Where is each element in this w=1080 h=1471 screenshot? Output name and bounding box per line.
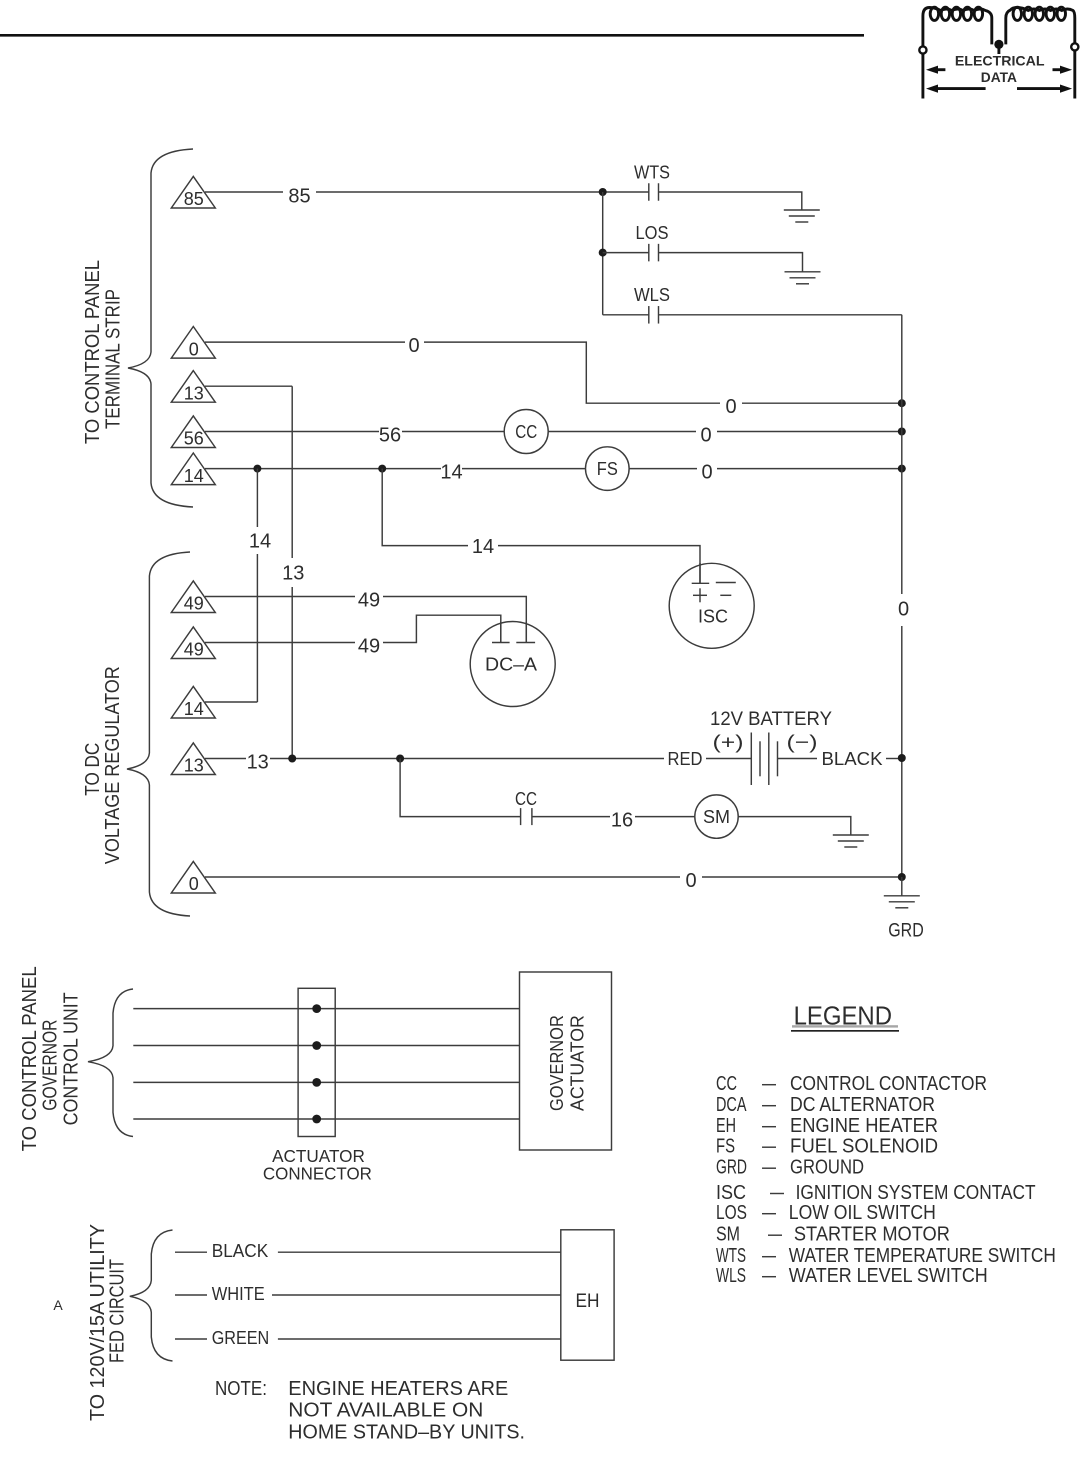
terminal 0 bbox=[171, 327, 215, 360]
svg-text:16: 16 bbox=[611, 810, 633, 832]
wire WLS left bbox=[603, 314, 649, 316]
svg-text:GREEN: GREEN bbox=[212, 1328, 270, 1348]
wire 14 drop to ISC row bbox=[382, 469, 468, 546]
junction: 13 wires meet bbox=[288, 755, 296, 763]
svg-text:BLACK: BLACK bbox=[822, 749, 883, 769]
svg-text:EH: EH bbox=[576, 1291, 600, 1312]
svg-text:WATER TEMPERATURE SWITCH: WATER TEMPERATURE SWITCH bbox=[789, 1245, 1056, 1267]
switch LOS bbox=[649, 244, 659, 262]
svg-text:85: 85 bbox=[288, 185, 310, 207]
contactor CC bbox=[504, 410, 548, 454]
wire 0 left bbox=[205, 341, 405, 343]
wire 16 left bbox=[532, 816, 610, 818]
terminal 49 lower bbox=[171, 627, 215, 660]
svg-text:NOT AVAILABLE ON: NOT AVAILABLE ON bbox=[288, 1400, 483, 1422]
svg-text:WLS: WLS bbox=[634, 285, 670, 305]
svg-text:14: 14 bbox=[184, 699, 204, 719]
junction: 14 row at bus bbox=[898, 465, 906, 473]
junction: 0 row at bus bbox=[898, 399, 906, 407]
note line 1 bbox=[215, 1378, 508, 1400]
svg-text:49: 49 bbox=[358, 590, 380, 612]
terminal 13 bbox=[171, 371, 215, 404]
wire 13 to starter bbox=[400, 759, 520, 817]
svg-text:ACTUATOR: ACTUATOR bbox=[568, 1015, 588, 1111]
svg-text:12V BATTERY: 12V BATTERY bbox=[710, 709, 832, 730]
terminal 0 (regulator) bbox=[171, 861, 215, 894]
junction: starter branch bbox=[396, 755, 404, 763]
wire LOS left bbox=[603, 252, 649, 254]
junction: battery at bus bbox=[898, 754, 906, 762]
governor wire 2 bbox=[133, 1045, 519, 1047]
svg-text:CC: CC bbox=[515, 422, 537, 442]
svg-text:FED CIRCUIT: FED CIRCUIT bbox=[107, 1259, 129, 1363]
svg-text:ISC: ISC bbox=[716, 1182, 746, 1204]
junction: ground node bbox=[898, 873, 906, 881]
svg-text:ENGINE HEATER: ENGINE HEATER bbox=[790, 1115, 938, 1137]
pin 3 bbox=[312, 1078, 321, 1087]
svg-text:0: 0 bbox=[898, 599, 909, 621]
switch WLS bbox=[649, 306, 659, 324]
svg-text:DCA: DCA bbox=[716, 1094, 747, 1116]
terminal 14 bbox=[171, 453, 215, 486]
legend entry ISC bbox=[716, 1182, 1036, 1204]
pin 2 bbox=[312, 1041, 321, 1050]
wire BLACK stub bbox=[175, 1251, 207, 1253]
junction: LOS branch bbox=[599, 249, 607, 257]
battery BT1 12V bbox=[751, 733, 777, 786]
terminal 49 upper bbox=[171, 581, 215, 614]
svg-text:13: 13 bbox=[184, 756, 204, 776]
svg-text:GRD: GRD bbox=[716, 1157, 747, 1179]
svg-text:(+): (+) bbox=[713, 733, 744, 754]
svg-text:13: 13 bbox=[184, 383, 204, 403]
brace: utility fed circuit group bbox=[130, 1230, 173, 1361]
wire 14 to bus bbox=[717, 468, 902, 470]
wire 56 to bus bbox=[717, 431, 902, 433]
svg-text:13: 13 bbox=[282, 563, 304, 585]
wire battery negative bbox=[778, 758, 818, 760]
starter motor SM bbox=[695, 795, 738, 838]
legend entry EH bbox=[716, 1115, 938, 1137]
wire 56 to CC bbox=[402, 431, 504, 433]
switch CC contact bbox=[521, 808, 532, 825]
wire WHITE stub bbox=[175, 1294, 207, 1296]
svg-text:DC–A: DC–A bbox=[485, 654, 537, 674]
governor wire 4 bbox=[133, 1118, 519, 1120]
svg-text:0: 0 bbox=[685, 870, 696, 892]
wire 49b to DC-A bbox=[383, 615, 501, 642]
svg-text:DC ALTERNATOR: DC ALTERNATOR bbox=[790, 1094, 935, 1116]
brace: governor control group bbox=[88, 989, 133, 1137]
wire 56 left bbox=[205, 431, 379, 433]
svg-text:FS: FS bbox=[597, 459, 618, 479]
legend entry FS bbox=[716, 1136, 938, 1158]
junction: WTS branch bbox=[599, 188, 607, 196]
wire LOS to ground bbox=[659, 253, 803, 272]
svg-text:0: 0 bbox=[408, 335, 419, 357]
logo: ELECTRICAL DATA inductor coils bbox=[919, 7, 1078, 98]
svg-text:13: 13 bbox=[247, 752, 269, 774]
legend entry DCA bbox=[716, 1094, 935, 1116]
wire 14 left bbox=[205, 468, 441, 470]
switch WTS bbox=[649, 183, 659, 201]
svg-text:WTS: WTS bbox=[634, 163, 670, 183]
svg-text:TO CONTROL PANEL: TO CONTROL PANEL bbox=[82, 260, 104, 444]
wire 13b to RED bbox=[270, 758, 664, 760]
wire GREEN to EH bbox=[278, 1338, 561, 1340]
svg-text:14: 14 bbox=[249, 530, 271, 552]
wire 14 after FS bbox=[629, 468, 697, 470]
wire 14 to FS bbox=[462, 468, 586, 470]
svg-text:CONNECTOR: CONNECTOR bbox=[263, 1163, 372, 1183]
svg-text:0: 0 bbox=[189, 339, 199, 359]
svg-text:(−): (−) bbox=[787, 733, 818, 754]
wire 14 to ISC bbox=[498, 546, 700, 584]
legend entry WLS bbox=[716, 1265, 988, 1287]
wire BLACK to bus bbox=[886, 758, 902, 760]
ground symbol SM bbox=[833, 835, 869, 847]
svg-text:EH: EH bbox=[716, 1115, 736, 1137]
svg-text:GOVERNOR: GOVERNOR bbox=[40, 1020, 62, 1111]
wire BLACK to EH bbox=[278, 1251, 561, 1253]
wire 0b to bus bbox=[702, 876, 902, 878]
terminal 56 bbox=[171, 416, 215, 449]
governor wire 3 bbox=[133, 1081, 519, 1083]
wire 85 vertical branch bbox=[602, 192, 604, 315]
svg-text:0: 0 bbox=[700, 425, 711, 447]
svg-text:TERMINAL STRIP: TERMINAL STRIP bbox=[103, 289, 125, 429]
wire GRD stub bbox=[901, 877, 903, 896]
terminal 85 bbox=[171, 176, 215, 209]
svg-text:49: 49 bbox=[358, 636, 380, 658]
svg-text:GROUND: GROUND bbox=[790, 1157, 864, 1179]
svg-text:0: 0 bbox=[189, 874, 199, 894]
wire WTS to ground bbox=[659, 192, 802, 210]
legend entry GRD bbox=[716, 1157, 864, 1179]
svg-text:FUEL SOLENOID: FUEL SOLENOID bbox=[790, 1136, 938, 1158]
legend underline gray bbox=[792, 1025, 898, 1027]
wire GREEN stub bbox=[175, 1338, 207, 1340]
svg-text:49: 49 bbox=[184, 640, 204, 660]
junction: 14 drop 1 bbox=[253, 465, 261, 473]
wire SM to ground bbox=[738, 817, 851, 835]
svg-text:LOS: LOS bbox=[636, 223, 669, 243]
svg-text:SM: SM bbox=[703, 807, 730, 827]
wire 0b left bbox=[205, 876, 680, 878]
legend entry WTS bbox=[716, 1245, 1056, 1267]
svg-text:GRD: GRD bbox=[888, 920, 924, 941]
svg-text:WTS: WTS bbox=[716, 1245, 746, 1267]
svg-text:49: 49 bbox=[184, 594, 204, 614]
ignition system contact ISC bbox=[669, 563, 754, 648]
wire 13b left bbox=[205, 758, 246, 760]
svg-text:NOTE:: NOTE: bbox=[215, 1378, 267, 1400]
wire 14 vertical upper bbox=[256, 469, 258, 527]
fuel solenoid FS bbox=[586, 447, 630, 491]
svg-text:LOW OIL SWITCH: LOW OIL SWITCH bbox=[789, 1202, 936, 1224]
svg-text:CC: CC bbox=[716, 1073, 737, 1095]
dc alternator DC-A bbox=[470, 622, 555, 707]
svg-text:LOS: LOS bbox=[716, 1202, 747, 1224]
wire 0 to bus bbox=[742, 402, 902, 404]
wire WLS to bus bbox=[659, 314, 902, 316]
svg-text:ISC: ISC bbox=[698, 607, 728, 627]
wire 13 vertical upper bbox=[291, 386, 293, 558]
svg-text:GOVERNOR: GOVERNOR bbox=[547, 1015, 567, 1111]
svg-text:FS: FS bbox=[716, 1136, 735, 1158]
bus wire lower bbox=[901, 626, 903, 877]
wire WHITE to EH bbox=[272, 1294, 561, 1296]
svg-text:CC: CC bbox=[515, 789, 537, 809]
svg-text:VOLTAGE REGULATOR: VOLTAGE REGULATOR bbox=[102, 666, 124, 864]
wire 49a left bbox=[205, 596, 355, 598]
svg-text:0: 0 bbox=[701, 462, 712, 484]
legend entry SM bbox=[716, 1224, 950, 1246]
svg-text:BLACK: BLACK bbox=[212, 1241, 269, 1261]
svg-text:14: 14 bbox=[440, 462, 462, 484]
wire 49b left bbox=[205, 642, 355, 644]
svg-text:ENGINE HEATERS ARE: ENGINE HEATERS ARE bbox=[288, 1378, 508, 1400]
legend underline black bbox=[791, 1030, 899, 1032]
svg-text:0: 0 bbox=[725, 396, 736, 418]
wire 13 vertical lower bbox=[291, 587, 293, 759]
svg-text:WATER LEVEL SWITCH: WATER LEVEL SWITCH bbox=[789, 1265, 988, 1287]
junction: 14 drop 2 bbox=[378, 465, 386, 473]
pin 4 bbox=[312, 1115, 321, 1124]
legend entry CC bbox=[716, 1073, 987, 1095]
brace: terminal strip group bbox=[128, 149, 193, 507]
svg-text:WHITE: WHITE bbox=[212, 1284, 265, 1304]
terminal 14 (regulator) bbox=[171, 686, 215, 719]
svg-text:TO DC: TO DC bbox=[82, 743, 104, 796]
svg-text:WLS: WLS bbox=[716, 1265, 746, 1287]
legend entry LOS bbox=[716, 1202, 936, 1224]
ground symbol LOS bbox=[785, 272, 821, 284]
wire 56 after CC bbox=[548, 431, 696, 433]
brace: DC voltage regulator group bbox=[127, 552, 190, 916]
svg-text:TO CONTROL PANEL: TO CONTROL PANEL bbox=[19, 966, 41, 1151]
svg-text:56: 56 bbox=[184, 429, 204, 449]
actuator connector J1 bbox=[298, 988, 335, 1136]
wire 13 right bbox=[205, 385, 292, 387]
governor wire 1 bbox=[133, 1008, 519, 1010]
svg-text:IGNITION SYSTEM CONTACT: IGNITION SYSTEM CONTACT bbox=[796, 1182, 1036, 1204]
junction: 56 row at bus bbox=[898, 428, 906, 436]
governor actuator box bbox=[520, 972, 612, 1150]
svg-text:DATA: DATA bbox=[981, 69, 1017, 85]
wire RED to battery bbox=[706, 758, 751, 760]
wire 14b bbox=[205, 701, 257, 703]
wire 14 vertical lower bbox=[256, 554, 258, 702]
page rule bbox=[0, 34, 864, 37]
terminal 13 (regulator) bbox=[171, 743, 215, 776]
wire 85 to WTS bbox=[316, 191, 649, 193]
wire 16 to SM bbox=[635, 816, 695, 818]
wire 0 step bbox=[424, 342, 720, 403]
svg-text:CONTROL UNIT: CONTROL UNIT bbox=[61, 992, 83, 1125]
ground symbol WTS bbox=[784, 210, 820, 222]
svg-text:A: A bbox=[53, 1297, 63, 1313]
svg-text:56: 56 bbox=[379, 425, 401, 447]
svg-text:STARTER MOTOR: STARTER MOTOR bbox=[794, 1224, 950, 1246]
svg-text:RED: RED bbox=[668, 749, 703, 769]
wire 49a to DC-A bbox=[383, 597, 526, 643]
wire 85 left bbox=[205, 191, 283, 193]
bus wire upper bbox=[901, 315, 903, 594]
svg-text:14: 14 bbox=[472, 536, 494, 558]
pin 1 bbox=[312, 1004, 321, 1013]
svg-text:85: 85 bbox=[184, 189, 204, 209]
svg-text:ELECTRICAL: ELECTRICAL bbox=[955, 52, 1045, 68]
svg-text:14: 14 bbox=[184, 466, 204, 486]
engine heater EH box bbox=[561, 1230, 614, 1360]
svg-text:SM: SM bbox=[716, 1224, 740, 1246]
svg-text:CONTROL CONTACTOR: CONTROL CONTACTOR bbox=[790, 1073, 987, 1095]
svg-text:HOME STAND–BY UNITS.: HOME STAND–BY UNITS. bbox=[288, 1421, 525, 1443]
ground symbol GRD bbox=[884, 896, 920, 908]
